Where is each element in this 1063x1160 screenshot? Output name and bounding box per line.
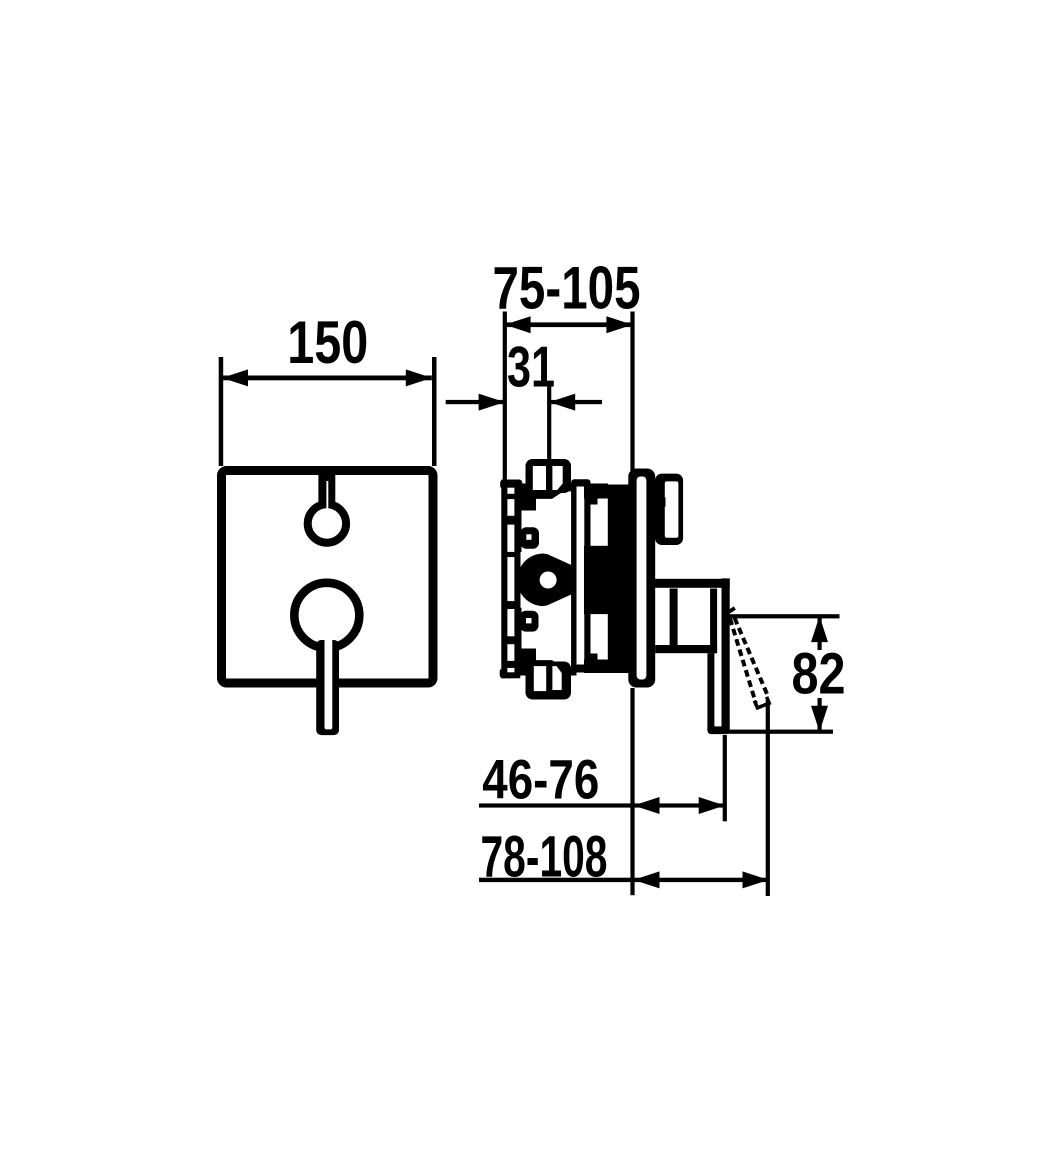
- rail slot 0: [507, 488, 514, 494]
- open lever dashed edge A: [730, 619, 756, 703]
- top screw slot right: [552, 466, 562, 490]
- lever hole ring: [294, 583, 359, 648]
- hub pivot hole: [540, 572, 557, 589]
- handle arm top: [652, 579, 730, 588]
- open lever dashed edge B: [735, 618, 768, 696]
- diverter knob (side): [655, 474, 683, 545]
- dim 31 line right overshoot: [549, 400, 602, 404]
- cartridge zone base: [514, 484, 576, 676]
- bottom screw slot left: [534, 666, 546, 691]
- dim 82 bottom extension: [727, 730, 834, 734]
- ext line 31: [547, 387, 551, 460]
- grip right wall: [722, 578, 730, 730]
- cartridge white lower: [522, 607, 572, 668]
- bottom connector band: [584, 660, 634, 674]
- cartridge screw upper: [520, 527, 539, 548]
- dim 46-76 line: [479, 803, 725, 807]
- dim 82 arrow down: [811, 706, 828, 732]
- dim 46-76 right extension: [723, 735, 727, 821]
- dim 82 arrow up: [811, 616, 828, 642]
- dim 150 extension line right: [432, 357, 437, 466]
- dim 78-108 line: [479, 878, 769, 882]
- rail top foot: [500, 480, 522, 489]
- wall plate (front view): [222, 471, 434, 684]
- cartridge hub: [517, 553, 571, 606]
- arm divider 1: [670, 589, 678, 646]
- handle arm bottom: [655, 645, 717, 653]
- svg-text:46-76: 46-76: [482, 748, 599, 811]
- center stem bump: [584, 546, 610, 614]
- bottom screw slot right: [552, 666, 561, 690]
- rail slot 6: [507, 668, 514, 672]
- dim 46-76 arrow left: [634, 797, 660, 814]
- rail slot 2: [507, 525, 514, 552]
- svg-text:78-108: 78-108: [481, 824, 608, 889]
- svg-text:150: 150: [287, 309, 368, 376]
- top screw slot left: [533, 466, 546, 490]
- grip lower-left wall: [707, 653, 714, 730]
- dim 78-108 right extension: [766, 700, 770, 896]
- dim 150 extension line left: [219, 357, 224, 466]
- upper stem slit: [326, 481, 328, 509]
- dim 78-108 arrow right: [743, 871, 769, 888]
- cartridge white upper: [522, 491, 572, 552]
- dim 31 line left overshoot: [446, 400, 505, 404]
- rail slot 5: [507, 644, 514, 661]
- upper hole ring: [308, 504, 346, 542]
- dim 75-105 line: [505, 322, 633, 327]
- wall surface line lower: [630, 688, 634, 895]
- housing front strip: [571, 479, 590, 672]
- svg-text:31: 31: [507, 336, 555, 400]
- grip bottom cap: [707, 726, 729, 734]
- dim 31 arrow left: [479, 394, 505, 411]
- top connector tab: [589, 499, 598, 505]
- rail bottom foot: [500, 668, 513, 678]
- diverter step: [655, 497, 666, 506]
- arm divider 2: [710, 589, 717, 654]
- rail slot 1: [507, 499, 514, 516]
- cartridge screw lower: [520, 611, 539, 632]
- upper hole stem: [318, 467, 335, 512]
- bottom screw box: [526, 662, 572, 700]
- dim 82 top extension: [729, 614, 840, 618]
- lever handle (front): [316, 640, 339, 735]
- top connector band: [584, 484, 608, 499]
- dim 150 arrow left: [222, 369, 248, 386]
- svg-text:82: 82: [792, 642, 846, 707]
- hub left clearance: [521, 552, 572, 608]
- top screw box: [526, 459, 572, 493]
- open lever solid top: [728, 608, 735, 613]
- dim 75-105 arrow left: [505, 316, 531, 333]
- svg-text:75-105: 75-105: [493, 254, 641, 321]
- escutcheon plate (side): [628, 469, 655, 688]
- open lever solid tip: [754, 697, 769, 708]
- mounting rail: [501, 480, 520, 679]
- dim 82 line upper: [818, 616, 822, 650]
- dim 150 arrow right: [406, 369, 432, 386]
- dim 46-76 arrow right: [699, 797, 725, 814]
- dim 31 arrow right: [549, 394, 575, 411]
- dim 150 line: [222, 376, 432, 381]
- wall surface line upper: [630, 312, 634, 472]
- wall section (solid): [608, 485, 634, 664]
- dim 75-105 arrow right: [606, 316, 632, 333]
- rail slot 4: [507, 609, 514, 636]
- dim 78-108 arrow left: [634, 871, 660, 888]
- dim 82 line lower: [818, 698, 822, 733]
- bottom connector tab: [589, 654, 598, 660]
- rail slot 3: [507, 557, 514, 601]
- ext line valve left: [503, 312, 507, 482]
